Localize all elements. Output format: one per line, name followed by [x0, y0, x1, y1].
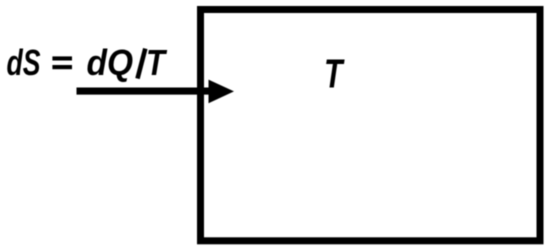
- heat flow arrowhead: [209, 80, 235, 104]
- svg-text:T: T: [146, 42, 168, 83]
- heat flow arrow shaft: [77, 88, 212, 95]
- svg-text:dS: dS: [7, 42, 41, 83]
- svg-text:T: T: [324, 51, 345, 97]
- equals sign (bottom bar): [52, 65, 72, 69]
- system boundary box (rectangle): [201, 10, 541, 241]
- slash: [138, 49, 146, 79]
- equals sign (top bar): [52, 56, 72, 60]
- svg-text:dQ: dQ: [87, 42, 134, 83]
